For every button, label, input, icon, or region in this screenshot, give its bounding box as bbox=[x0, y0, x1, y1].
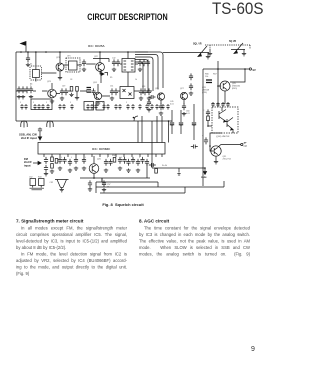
node hook dot bbox=[133, 117, 135, 119]
crystal X1 bbox=[33, 70, 40, 78]
svg-text:8: 8 bbox=[33, 102, 34, 104]
svg-text:AF: AF bbox=[244, 142, 248, 145]
svg-text:(Q30) UMC5N: (Q30) UMC5N bbox=[216, 136, 230, 138]
IC U2 switch bbox=[120, 87, 134, 99]
filter dashed box 2 bbox=[66, 58, 80, 72]
capacitor C44 bbox=[138, 59, 142, 66]
ground Q31 bbox=[214, 160, 218, 164]
wire mute line bbox=[152, 167, 205, 169]
svg-text:R44: R44 bbox=[38, 177, 41, 179]
capacitor C49 bbox=[60, 88, 64, 95]
resistor R90 bars bbox=[87, 88, 92, 93]
connector J2 bbox=[47, 121, 53, 128]
connector J1 bbox=[21, 121, 27, 128]
box C52 left bbox=[30, 179, 36, 186]
svg-text:IC3 : KC583C: IC3 : KC583C bbox=[92, 147, 111, 151]
svg-text:SQ VR: SQ VR bbox=[229, 41, 236, 43]
capacitor C91 bbox=[91, 88, 95, 95]
capacitor C95 bbox=[191, 145, 198, 149]
svg-text:Q22: Q22 bbox=[94, 56, 99, 58]
svg-text:(K36): (K36) bbox=[202, 92, 207, 94]
transistor Q22 bbox=[96, 63, 105, 72]
wire 9V rail bbox=[203, 68, 249, 70]
svg-text:4: 4 bbox=[71, 157, 72, 159]
capacitor C56 bbox=[149, 95, 156, 99]
ground pot stub bbox=[209, 49, 211, 52]
wire IC3 pins bbox=[43, 154, 45, 157]
capacitor C53 bbox=[139, 88, 143, 95]
svg-text:Q24: Q24 bbox=[93, 82, 98, 84]
transistor Q30b bbox=[227, 118, 233, 130]
svg-text:8: 8 bbox=[126, 102, 127, 104]
svg-text:8: 8 bbox=[46, 102, 47, 104]
capacitor C67 bbox=[68, 159, 72, 166]
transistor Q30a bbox=[219, 110, 226, 122]
capacitor C81 bbox=[102, 180, 106, 187]
svg-text:C8: C8 bbox=[70, 79, 72, 81]
power flag P1 bbox=[25, 46, 27, 52]
box around rail caps 2 bbox=[84, 102, 94, 111]
transistor Q25 bbox=[157, 93, 164, 100]
IC3 box bbox=[38, 143, 165, 155]
svg-text:C52: C52 bbox=[29, 177, 32, 179]
crystal dashed box bbox=[30, 66, 42, 80]
capacitor C51 bbox=[110, 88, 114, 95]
pot SQL VR2 bbox=[231, 43, 245, 54]
resistor R55 bbox=[76, 87, 79, 92]
svg-text:10k: 10k bbox=[205, 76, 208, 78]
node dots 9V bbox=[217, 68, 219, 70]
capacitor C72 bbox=[118, 157, 122, 164]
svg-text:+: + bbox=[202, 135, 204, 138]
capacitor rail bank bbox=[20, 104, 23, 110]
capacitor C73 bbox=[122, 157, 126, 164]
capacitor C62 bbox=[204, 137, 208, 144]
resistor R68v bbox=[207, 116, 210, 121]
svg-text:4: 4 bbox=[107, 157, 108, 159]
svg-text:C51: C51 bbox=[110, 86, 113, 88]
discriminator X2 bbox=[55, 180, 69, 188]
capacitor C52a bbox=[114, 88, 118, 95]
resistor R58 bbox=[113, 158, 116, 163]
wire row B feed bbox=[16, 91, 152, 96]
wire top box left edge bbox=[15, 52, 17, 121]
ground left boxes bbox=[30, 186, 45, 190]
svg-text:C42: C42 bbox=[112, 58, 115, 60]
capacitor C70 bbox=[104, 159, 108, 166]
capacitor C63 bbox=[44, 157, 48, 164]
wire dashed link bbox=[205, 45, 250, 49]
box around rail caps bbox=[31, 99, 52, 110]
svg-text:2nd IF input: 2nd IF input bbox=[21, 136, 37, 140]
arrow under Q22 bbox=[100, 71, 104, 74]
capacitor C42 bbox=[112, 59, 116, 66]
svg-text:(R45): (R45) bbox=[232, 88, 237, 90]
wire bottom box top bbox=[96, 182, 158, 187]
capacitor C54 bbox=[143, 88, 147, 95]
capacitor C68 bbox=[74, 157, 78, 164]
capacitor C69 bbox=[82, 157, 86, 164]
svg-text:8: 8 bbox=[20, 102, 21, 104]
svg-text:input: input bbox=[24, 163, 31, 167]
svg-text:9V: 9V bbox=[253, 68, 256, 72]
resistor R96 bbox=[155, 169, 158, 174]
svg-text:0.01: 0.01 bbox=[170, 104, 174, 106]
capacitor C40 bbox=[27, 52, 29, 55]
svg-text:SQL VR: SQL VR bbox=[193, 44, 202, 46]
svg-text:4: 4 bbox=[139, 157, 140, 159]
wire to SQL VR bbox=[163, 52, 195, 54]
wire bottom box mid bbox=[96, 181, 224, 187]
node dot x168 bbox=[168, 120, 170, 122]
capacitor C61 bbox=[206, 109, 210, 116]
capacitor C66 bbox=[62, 157, 66, 164]
svg-text:8: 8 bbox=[102, 102, 103, 104]
capacitor bank x191 bbox=[189, 73, 193, 80]
capacitor C43 bbox=[116, 59, 120, 66]
capacitor C76 bbox=[136, 159, 140, 166]
capacitor C80 bbox=[88, 180, 92, 187]
arrow SSB input bbox=[39, 133, 41, 136]
capacitor C77 bbox=[140, 157, 144, 164]
wire bottom left stubs bbox=[96, 178, 102, 193]
capacitor C48b bbox=[29, 86, 33, 93]
transistor Q26 bbox=[89, 164, 99, 174]
filter CF1 bbox=[69, 61, 78, 70]
svg-text:Ru 9k: Ru 9k bbox=[162, 165, 167, 167]
resistor R66 body bbox=[206, 80, 212, 83]
svg-text:4: 4 bbox=[61, 157, 62, 159]
svg-text:Q27: Q27 bbox=[180, 88, 185, 90]
wire Q30 bbox=[222, 107, 233, 133]
capacitor C41 bbox=[82, 59, 86, 66]
transistor Q23 bbox=[48, 89, 57, 98]
wire top box bottom bbox=[16, 120, 172, 122]
wire bottom box low bbox=[100, 187, 185, 193]
svg-text:R67: R67 bbox=[213, 74, 218, 76]
svg-text:out: out bbox=[244, 145, 248, 148]
svg-text:Q26: Q26 bbox=[97, 159, 102, 161]
svg-text:CF2: CF2 bbox=[50, 182, 54, 184]
wire bbox=[101, 52, 138, 87]
svg-text:Q25: Q25 bbox=[155, 88, 160, 90]
capacitor C65 bbox=[58, 157, 62, 164]
svg-text:R9: R9 bbox=[110, 77, 112, 79]
capacitor C74 bbox=[126, 159, 130, 166]
svg-text:IC4 : KC25A: IC4 : KC25A bbox=[88, 44, 105, 48]
transistor Q31 bbox=[211, 146, 221, 156]
wire Q31 emitter bbox=[215, 156, 217, 160]
svg-text:R58: R58 bbox=[112, 155, 115, 157]
wire bottom verticals bbox=[102, 164, 147, 182]
capacitor C50 bbox=[64, 88, 68, 95]
dashed box Q30 bbox=[212, 107, 238, 133]
capacitor C78 bbox=[145, 159, 149, 166]
wire Q26 emitter bbox=[93, 173, 95, 178]
capacitor C75 bbox=[131, 157, 135, 164]
wire Q29 emitter bbox=[224, 91, 226, 104]
wire hook bundle bbox=[135, 52, 163, 88]
svg-text:CF1: CF1 bbox=[67, 56, 71, 58]
wire stub x179 bbox=[178, 168, 180, 173]
IC U3 MC3361 bbox=[122, 59, 135, 73]
svg-text:1k: 1k bbox=[135, 79, 137, 81]
wire bottom rail bbox=[80, 177, 150, 179]
capacitor C64 bbox=[44, 165, 48, 172]
capacitor C58 bbox=[170, 123, 174, 127]
svg-text:C53: C53 bbox=[142, 86, 145, 88]
capacitor C57b bbox=[159, 103, 163, 110]
capacitor bank top right bbox=[211, 102, 214, 107]
svg-text:47u: 47u bbox=[107, 186, 110, 188]
capacitor C60 bbox=[192, 123, 196, 127]
transistor Q27 bbox=[180, 92, 187, 99]
svg-text:4: 4 bbox=[121, 157, 122, 159]
resistor R47 bbox=[51, 157, 54, 162]
svg-text:C49: C49 bbox=[62, 86, 65, 88]
wire hook under rail bbox=[134, 116, 138, 121]
capacitor C48 bbox=[25, 86, 29, 93]
capacitor C47 bbox=[21, 86, 25, 93]
arrow FM input bbox=[33, 162, 39, 164]
capacitor C59 bbox=[179, 123, 183, 127]
wire top bus bbox=[16, 51, 148, 53]
capacitor Cin bbox=[38, 128, 42, 134]
svg-text:Q23: Q23 bbox=[47, 81, 52, 83]
pot SQL VR1 bbox=[195, 46, 209, 57]
capacitor C57d bbox=[182, 103, 186, 110]
wire right verticals bbox=[203, 61, 245, 186]
svg-text:C: C bbox=[203, 110, 205, 112]
wire into Q31 bbox=[210, 133, 222, 146]
svg-text:8: 8 bbox=[70, 102, 71, 104]
wire mid verticals bbox=[138, 104, 194, 168]
capacitor C55 bbox=[147, 88, 151, 95]
capacitor C57c bbox=[147, 99, 151, 106]
svg-text:4: 4 bbox=[85, 157, 86, 159]
capacitor C71 bbox=[108, 159, 112, 166]
capacitor C45a bbox=[142, 59, 146, 66]
resistor R48 bbox=[55, 159, 58, 164]
capacitor C46 bbox=[17, 86, 21, 93]
svg-text:X1: X1 bbox=[30, 64, 32, 66]
svg-text:0.01: 0.01 bbox=[186, 113, 190, 115]
capacitor C96 bbox=[149, 163, 156, 167]
wire bbox=[86, 59, 109, 65]
transistor Q24 bbox=[94, 92, 101, 99]
resistor R54 bbox=[70, 87, 73, 92]
transistor Q29 bbox=[220, 81, 230, 91]
transistor Q21 bbox=[56, 63, 64, 71]
wire AF out bbox=[218, 145, 241, 148]
node bus dots bbox=[20, 51, 22, 53]
arrow mute end bbox=[204, 168, 206, 171]
wire X1 feed bbox=[36, 52, 57, 73]
svg-text:mute: mute bbox=[201, 176, 207, 179]
svg-text:2SC2712: 2SC2712 bbox=[223, 159, 232, 161]
